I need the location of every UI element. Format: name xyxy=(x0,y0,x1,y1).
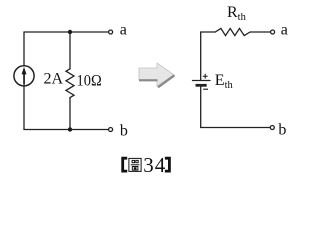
wire: right circuit bottom xyxy=(201,127,271,129)
current source I1 circle xyxy=(14,66,34,86)
battery E_th top plate xyxy=(193,80,211,82)
wire: left circuit left vertical (bottom) xyxy=(23,86,25,130)
battery plus sign xyxy=(203,74,208,79)
battery E_th bottom plate xyxy=(196,84,207,87)
current source arrow xyxy=(22,67,27,85)
wire: left circuit top xyxy=(24,31,108,33)
wire: resistor branch lower xyxy=(69,98,71,130)
resistor Rth zigzag xyxy=(215,28,250,35)
battery minus sign xyxy=(203,88,208,90)
svg-text:10Ω: 10Ω xyxy=(77,73,102,90)
caption glyph 圖 xyxy=(129,158,141,171)
wire: left circuit bottom xyxy=(24,129,108,131)
caption bracket 【 xyxy=(121,157,127,173)
terminal a (right circuit) xyxy=(271,30,275,34)
junction node bottom xyxy=(68,127,72,131)
svg-text:34: 34 xyxy=(143,153,166,177)
caption bracket 】 xyxy=(165,157,171,173)
transformation block arrow xyxy=(139,63,175,87)
wire: resistor branch upper xyxy=(69,32,71,69)
junction node top xyxy=(68,30,72,34)
svg-text:a: a xyxy=(281,22,288,39)
svg-text:b: b xyxy=(278,122,286,139)
svg-text:a: a xyxy=(120,22,127,39)
terminal b (right circuit) xyxy=(270,126,274,130)
svg-text:b: b xyxy=(120,122,128,139)
wire: right circuit top-left xyxy=(201,31,216,33)
svg-text:2A: 2A xyxy=(44,71,64,88)
wire: left circuit left vertical (top) xyxy=(23,32,25,66)
wire: right circuit left vertical lower xyxy=(200,87,202,128)
terminal b (left circuit) xyxy=(109,128,113,132)
wire: right circuit left vertical upper xyxy=(200,32,202,80)
terminal a (left circuit) xyxy=(109,30,113,34)
resistor 10Ω zigzag xyxy=(66,69,74,98)
wire: right circuit top-right xyxy=(250,31,270,33)
